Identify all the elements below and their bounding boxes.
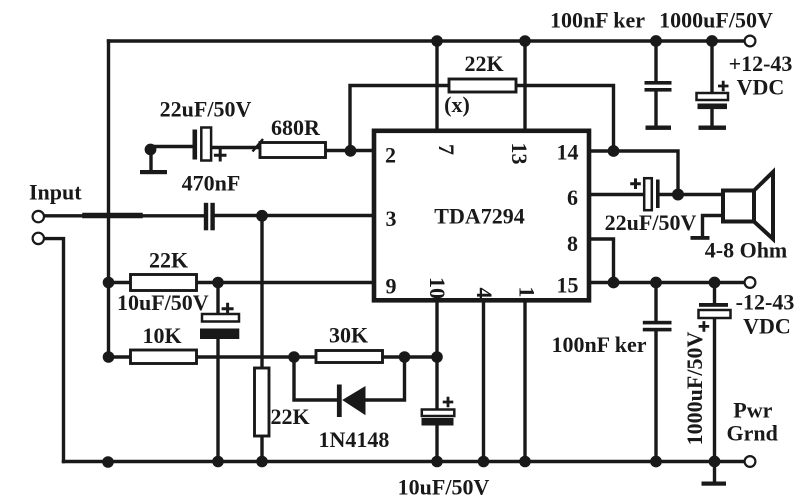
svg-text:1000uF/50V: 1000uF/50V (682, 332, 707, 446)
svg-text:7: 7 (434, 144, 459, 155)
svg-text:10K: 10K (142, 323, 181, 348)
svg-text:TDA7294: TDA7294 (434, 204, 524, 229)
svg-text:Input: Input (29, 180, 82, 205)
svg-text:4: 4 (472, 288, 497, 299)
svg-text:1: 1 (515, 287, 540, 298)
svg-text:-12-43: -12-43 (736, 290, 795, 315)
svg-text:22uF/50V: 22uF/50V (605, 210, 697, 235)
svg-text:22K: 22K (464, 51, 503, 76)
svg-text:22K: 22K (149, 248, 188, 273)
svg-text:15: 15 (557, 273, 579, 298)
svg-text:2: 2 (385, 143, 396, 168)
svg-text:9: 9 (386, 274, 397, 299)
svg-text:14: 14 (557, 140, 579, 165)
svg-text:6: 6 (567, 185, 578, 210)
svg-text:1000uF/50V: 1000uF/50V (659, 8, 773, 33)
svg-text:470nF: 470nF (182, 171, 241, 196)
svg-text:30K: 30K (329, 322, 368, 347)
svg-text:13: 13 (507, 143, 532, 165)
svg-text:22uF/50V: 22uF/50V (160, 97, 252, 122)
svg-text:(x): (x) (444, 92, 470, 117)
svg-text:10uF/50V: 10uF/50V (398, 475, 490, 500)
svg-text:1N4148: 1N4148 (319, 427, 390, 452)
svg-text:680R: 680R (271, 115, 321, 140)
svg-text:VDC: VDC (743, 314, 791, 339)
svg-text:3: 3 (386, 206, 397, 231)
svg-text:22K: 22K (270, 404, 309, 429)
svg-text:10: 10 (425, 277, 450, 299)
svg-text:+12-43: +12-43 (729, 51, 793, 76)
svg-text:100nF ker: 100nF ker (551, 332, 646, 357)
svg-text:VDC: VDC (737, 75, 785, 100)
svg-text:4-8 Ohm: 4-8 Ohm (705, 238, 788, 263)
svg-text:Grnd: Grnd (727, 421, 778, 446)
svg-text:100nF ker: 100nF ker (550, 8, 645, 33)
svg-text:Pwr: Pwr (733, 398, 772, 423)
svg-text:8: 8 (567, 231, 578, 256)
svg-text:10uF/50V: 10uF/50V (117, 290, 209, 315)
